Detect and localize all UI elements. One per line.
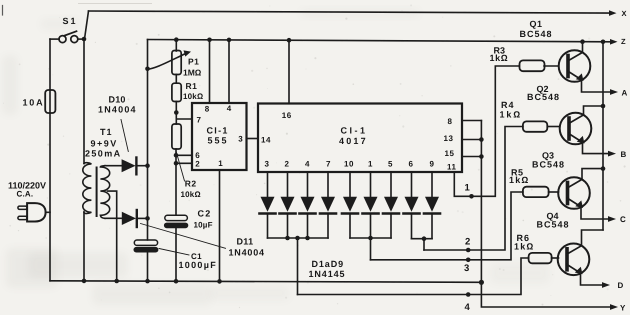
wire 4017 pin13 to ground line [462,139,481,141]
svg-text:S1: S1 [63,16,78,26]
capacitor C1 [134,240,159,281]
capacitor C2 [164,163,188,281]
node tie C feeder [422,236,427,241]
svg-text:10kΩ: 10kΩ [183,92,203,101]
node 555 pin4 on Z rail [227,38,232,43]
potentiometer P1 [148,40,192,83]
svg-text:4017: 4017 [339,136,368,146]
op-amp U1 555 box [192,103,247,170]
transformer T1 secondary winding [100,166,109,219]
svg-text:Y: Y [620,304,626,313]
svg-text:7: 7 [197,115,202,124]
node D arrow [602,282,610,288]
wire R2 bottom to C2 [175,149,177,163]
edge tick mark [2,6,4,16]
wire center tap down to rail [108,191,117,281]
wire 555 pin8 lead [209,40,211,103]
wire R5 to Q3 base [549,191,559,193]
wire feeder tie B to bus 3 [370,238,372,260]
node R1-R2 junction [174,110,179,115]
transformer T1 primary winding [83,163,92,214]
wire X top rail [89,11,611,13]
svg-text:10kΩ: 10kΩ [181,190,201,199]
IC U2 4017 box [258,104,462,173]
diode D4 [320,172,336,238]
svg-text:9+9V: 9+9V [91,138,118,148]
svg-text:R2: R2 [185,179,197,189]
node C arrow [608,216,616,222]
svg-text:CI-1: CI-1 [207,126,229,136]
node center tap on rail [114,279,119,284]
svg-text:1kΩ: 1kΩ [490,53,509,63]
wire primary bottom to rail [83,212,85,282]
svg-text:1000µF: 1000µF [179,260,218,270]
wire secondary bottom to D11 [105,217,122,219]
svg-text:2: 2 [465,236,470,247]
svg-text:D: D [618,281,624,290]
svg-text:BC548: BC548 [527,92,560,102]
svg-text:1kΩ: 1kΩ [500,109,523,119]
resistor R6 [529,253,552,263]
svg-text:D1aD9: D1aD9 [312,259,345,269]
svg-text:6: 6 [409,160,414,169]
svg-text:11: 11 [447,162,457,171]
node D10 cathode junction [145,163,150,168]
node pin13 junction [479,137,484,142]
node ground rail end junction [479,280,484,285]
svg-text:B: B [621,150,627,159]
wire tie D5-D7 [350,237,391,239]
svg-text:R1: R1 [186,81,198,91]
wire Z supply rail [148,40,612,42]
svg-text:5: 5 [388,160,393,169]
svg-text:X: X [622,9,627,18]
wire 4017 pin8 to ground line [462,120,481,122]
wire +V left vertical rail [147,40,149,241]
node 4017 pin16 on Z rail [287,38,292,43]
wire R6 to Q4 base [552,257,559,259]
fuse 10A [45,90,55,113]
node Q1 collector on Z [580,39,585,44]
svg-text:CI-1: CI-1 [341,125,368,135]
svg-text:1N4004: 1N4004 [229,247,265,257]
svg-text:D10: D10 [109,95,126,105]
svg-text:C: C [620,215,626,224]
node bus 4 dot [466,292,471,297]
node tie A d2 [285,236,290,241]
node Q3 collector junction [601,166,606,171]
svg-text:10A: 10A [23,98,45,108]
faint top edge scan line [78,3,152,5]
resistor R1 [172,83,181,101]
wire 555 pin3 to 4017 pin14 [247,138,259,140]
node C1 on rail [145,279,150,284]
svg-text:9: 9 [430,160,435,169]
node P1 top on Z rail [174,37,179,42]
svg-text:C2: C2 [198,209,212,219]
wire tie D1-D4 [268,237,329,239]
svg-text:1MΩ: 1MΩ [183,68,202,78]
node D11 cathode junction [145,216,150,221]
diode D11 [122,210,148,227]
diode D9 [424,172,440,239]
node 555 pin1 on rail [217,279,222,284]
node S1 junction [82,37,87,42]
wire R3 to Q1 base [544,65,559,67]
transistor Q4 [558,230,604,285]
svg-text:15: 15 [445,149,455,158]
plug prong bottom [18,216,27,219]
svg-text:7: 7 [326,160,331,169]
wire R1 bottom to R2 top [175,102,177,125]
diode D7 [383,172,399,238]
diode D6 [363,172,379,238]
svg-text:BC548: BC548 [532,159,565,169]
svg-text:1: 1 [218,159,223,168]
svg-text:BC548: BC548 [520,29,553,39]
node tie A feeder [295,236,300,241]
node pin6 junction [174,153,179,158]
wire 4017 pin11 to bus 1 to R3 [454,66,518,196]
wire feeder tie C to bus 2 [423,239,425,250]
diode D8 [404,172,420,239]
node pin15 junction [479,154,484,159]
svg-text:8: 8 [205,105,210,114]
wire collector feed vertical [602,42,604,230]
wire plug to vertical [46,211,50,213]
svg-text:4: 4 [465,302,471,313]
svg-text:P1: P1 [188,57,199,67]
wire 555 pin1 lead [219,170,221,281]
node Q2 collector junction [601,104,606,109]
node 555 pin8 on Z rail [207,38,212,43]
node feed on Z rail [601,40,606,45]
svg-text:T1: T1 [100,127,113,137]
svg-text:3: 3 [464,263,469,274]
resistor R2 [172,124,181,149]
svg-text:14: 14 [261,136,271,145]
wire switch down through fuse to bottom rail [49,39,51,281]
wire S1 junction down to transformer primary [83,39,85,164]
node primary bottom on rail [82,279,87,284]
wire secondary top to D10 [105,165,122,167]
svg-text:Z: Z [621,37,626,46]
wire 555 pin2 [176,162,192,164]
svg-text:1N4145: 1N4145 [309,269,346,279]
node P1 wiper junction [145,67,150,72]
node bus 3 dot [466,258,471,263]
node tie B feeder [368,236,373,241]
wire bus 2 to R4 [424,127,523,251]
svg-text:2: 2 [195,160,200,169]
svg-text:8: 8 [448,117,453,126]
node bus 1 dot [469,194,474,199]
svg-text:4: 4 [305,160,310,169]
node pin2 junction [174,161,179,166]
wire 4017 pin16 lead [288,40,290,103]
svg-text:250mA: 250mA [85,149,122,159]
leader line D10 label [121,120,128,152]
svg-text:3: 3 [265,160,270,169]
wire tie D8-D9 [412,238,433,240]
svg-text:1kΩ: 1kΩ [514,242,535,252]
plug body [27,203,45,221]
diode D1 [260,172,276,238]
resistor R4 [523,121,547,131]
node tie A d3 [305,236,310,241]
leader line C1 label [159,249,189,256]
wire bus 4 to R6 [298,258,529,295]
wire 555 pin6 [176,154,192,156]
node C2 on rail [174,279,179,284]
svg-text:2: 2 [285,160,290,169]
wire 555 pin7 [176,118,192,120]
node Z arrow [610,39,618,45]
node X arrow [609,10,617,16]
wire from X rail down to S1 [85,11,89,39]
wire bus 3 to R5 [371,192,523,260]
transistor Q1 [559,42,612,92]
wire ground vertical to Y line [481,121,611,308]
resistor R5 [523,187,549,197]
plug prong top [18,206,27,209]
svg-text:555: 555 [208,135,229,145]
transistor Q3 [558,169,609,219]
svg-text:1kΩ: 1kΩ [509,175,530,185]
svg-text:C.A.: C.A. [17,190,34,199]
svg-text:D11: D11 [237,237,254,247]
svg-text:1N4004: 1N4004 [98,104,137,114]
svg-text:BC548: BC548 [537,219,570,229]
svg-text:1: 1 [368,160,373,169]
diode D3 [300,172,316,238]
diode D2 [280,172,296,238]
leader line D11 label [141,224,226,249]
wire 555 pin4 lead [228,40,230,103]
svg-text:3: 3 [238,134,243,143]
transformer T1 core [96,168,98,217]
resistor R3 [520,60,545,71]
svg-text:10: 10 [344,160,354,169]
svg-text:1: 1 [465,182,471,193]
diode D5 [342,172,358,238]
svg-text:Q1: Q1 [530,19,543,29]
wire ground bottom rail [50,281,481,283]
node Y arrow [610,304,618,310]
wire R4 to Q2 base [547,126,558,128]
leader line R2 label [176,151,185,181]
node bus 2 dot [466,248,471,253]
svg-text:A: A [622,88,628,97]
switch S1 [50,31,84,42]
transistor Q2 [560,106,610,154]
svg-text:13: 13 [444,134,454,143]
svg-text:10µF: 10µF [194,221,213,230]
node B arrow [608,151,616,157]
diode D10 [122,158,148,175]
svg-text:16: 16 [282,111,292,120]
node A arrow [610,89,618,95]
wire 4017 pin15 to ground line [462,156,481,158]
svg-text:4: 4 [227,104,232,113]
wire feeder tie A to bus 4 [297,238,299,295]
